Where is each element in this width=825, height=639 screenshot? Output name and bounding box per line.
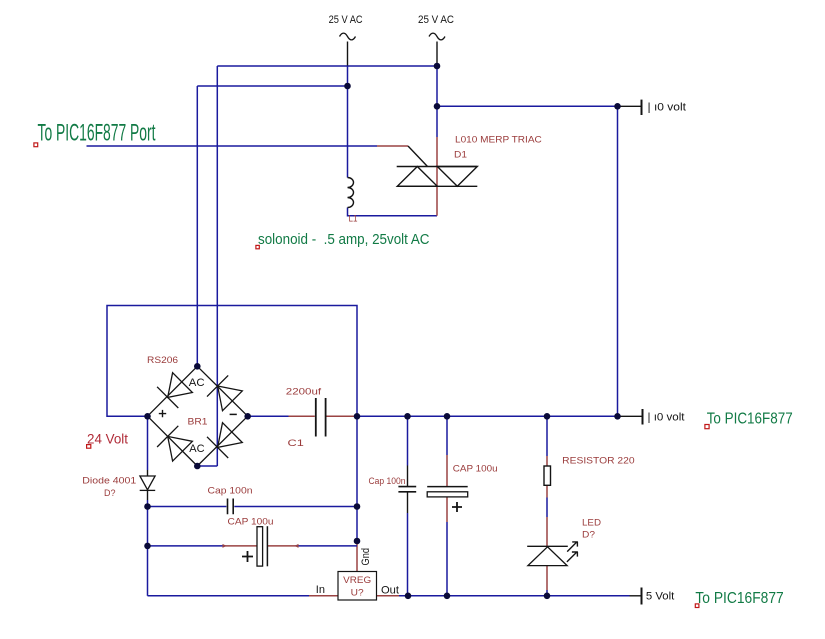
svg-text:24 Volt: 24 Volt	[87, 431, 128, 446]
inductor L1 coil	[348, 178, 354, 208]
triac D1 top line	[397, 166, 478, 168]
LED D? arrow 1	[567, 542, 578, 552]
svg-text:VREG: VREG	[343, 575, 371, 586]
wire top AC line	[217, 65, 437, 67]
capacitor CAP100u vertical plus sign	[452, 502, 462, 512]
wire cap100u line right	[296, 545, 358, 547]
triac D1 gate diagonal	[408, 146, 428, 167]
wire to 0 volt top	[437, 105, 618, 107]
capacitor C1 2200uf plates	[316, 398, 326, 437]
bridge BR1 arm top-left	[148, 366, 198, 416]
svg-text:RS206: RS206	[147, 355, 178, 366]
svg-text:| ı0 volt: | ı0 volt	[648, 412, 685, 424]
terminal 25VAC1 stub	[347, 42, 349, 66]
wire right vertical	[617, 106, 619, 416]
LED D? triangle	[528, 547, 567, 566]
terminal 25VAC2 tilde	[429, 33, 445, 40]
triac D1 bottom line	[397, 185, 477, 187]
wire In lead maroon	[309, 595, 338, 597]
diode D? 4001 triangle	[140, 476, 155, 490]
wire Out lead maroon	[377, 595, 400, 597]
voltage regulator U? VREG box	[338, 572, 377, 601]
svg-text:BR1: BR1	[188, 417, 208, 428]
svg-text:To PIC16F877: To PIC16F877	[695, 590, 783, 607]
capacitor CAP100u vertical plate rect	[427, 492, 468, 497]
svg-text:2200uf: 2200uf	[286, 386, 322, 397]
svg-text:Out: Out	[381, 584, 399, 596]
svg-text:D1: D1	[454, 149, 467, 160]
resistor R 220 body	[544, 466, 551, 485]
diode D? 4001 bar	[140, 489, 156, 491]
port squares red	[34, 143, 709, 608]
wire diode lead bottom	[147, 491, 149, 501]
wire solenoid bottom to triac	[348, 208, 438, 216]
svg-text:| ı0 volt: | ı0 volt	[648, 102, 687, 114]
svg-text:To PIC16F877: To PIC16F877	[707, 410, 793, 427]
bridge diode TR triangle	[218, 386, 243, 411]
wire cap100n line right	[234, 506, 357, 508]
wire diode lead top	[147, 470, 149, 476]
svg-text:AC: AC	[189, 443, 204, 455]
capacitor CAP100u horizontal plus sign	[242, 551, 253, 562]
svg-text:Diode 4001: Diode 4001	[82, 476, 136, 487]
bridge diode TL triangle	[168, 373, 193, 398]
LED D? arrow 2	[567, 552, 578, 562]
LED D? bar	[527, 545, 568, 547]
svg-text:L010 MERP TRIAC: L010 MERP TRIAC	[455, 135, 542, 146]
wire cap100u line left	[148, 545, 226, 547]
cap100u tiny arrow marks	[223, 544, 227, 548]
bridge diode BR triangle	[218, 423, 243, 448]
triac D1 gate lead maroon	[377, 145, 408, 147]
svg-text:D?: D?	[582, 529, 595, 540]
bridge diode TL bar	[157, 387, 178, 408]
terminal bar 0volt mid	[642, 409, 644, 425]
svg-text:AC: AC	[189, 377, 205, 389]
bridge BR1 arm top-right	[197, 366, 247, 416]
wire left vertical to bridge top	[196, 86, 198, 366]
svg-text:D?: D?	[104, 488, 116, 499]
wire resistor column blue	[546, 416, 548, 596]
svg-text:To PIC16F877 Port: To PIC16F877 Port	[38, 120, 156, 147]
svg-text:Cap 100n: Cap 100n	[369, 476, 406, 487]
wire plus to diode	[147, 416, 149, 470]
wire 5V terminal stub	[630, 595, 642, 597]
wire cap3 column	[446, 416, 448, 596]
capacitor CAP100u horizontal plate line	[266, 526, 268, 566]
svg-text:Cap 100n: Cap 100n	[208, 486, 253, 497]
wire gnd lead maroon	[356, 543, 358, 572]
wire C1 leads maroon	[289, 415, 358, 417]
triac D1 vertical maroon	[436, 137, 438, 216]
svg-text:CAP 100u: CAP 100u	[453, 463, 498, 474]
svg-text:solonoid - .5 amp, 25volt AC: solonoid - .5 amp, 25volt AC	[258, 231, 430, 248]
label minus sign bridge	[230, 413, 237, 415]
bridge diode BL triangle	[168, 436, 193, 461]
wire resistor leads maroon	[546, 456, 548, 590]
wire second AC line	[197, 85, 347, 87]
capacitor Cap100n vertical plates	[398, 487, 416, 492]
capacitor CAP100u horizontal plate rect	[257, 527, 263, 566]
svg-text:U?: U?	[351, 588, 364, 599]
wire bottom 5V line	[399, 595, 630, 597]
bridge BR1 arm bottom-left	[148, 416, 198, 466]
svg-text:Gnd: Gnd	[360, 548, 372, 566]
capacitor Cap100n horizontal plates	[228, 499, 234, 515]
wire minus rail left	[248, 415, 289, 417]
wire left vertical to bridge bottom	[197, 66, 217, 466]
wire 25VAC to solenoid	[347, 66, 349, 178]
wire cap3 leads maroon	[446, 455, 448, 522]
svg-text:RESISTOR 220: RESISTOR 220	[562, 455, 634, 466]
wire cap2 column	[407, 416, 409, 596]
wire cap100u lead right maroon	[268, 545, 296, 547]
terminal bar 0volt top	[641, 100, 643, 115]
bridge diode TR bar	[207, 375, 228, 396]
label plus sign bridge	[159, 410, 166, 417]
triac D1 right triangle	[437, 167, 477, 187]
wire bottom to VREG In	[148, 595, 310, 597]
bridge diode BL bar	[157, 426, 178, 447]
terminal 25VAC1 tilde	[340, 33, 356, 40]
wire 25VAC2 down	[436, 66, 438, 137]
svg-text:CAP 100u: CAP 100u	[228, 516, 274, 527]
bridge diode BR bar	[207, 437, 228, 458]
triac D1 left triangle	[397, 167, 437, 187]
wire cap100n line left	[148, 506, 227, 508]
svg-text:25 V AC: 25 V AC	[329, 14, 363, 26]
bridge BR1 arm bottom-right	[197, 416, 247, 466]
wire main rail	[357, 415, 618, 417]
svg-text:In: In	[316, 584, 325, 596]
wire plus loop box	[107, 306, 357, 543]
svg-text:5 Volt: 5 Volt	[646, 590, 674, 602]
svg-text:L1: L1	[349, 214, 358, 225]
capacitor CAP100u vertical plate line	[427, 486, 468, 488]
wire 0volt top stub	[618, 105, 642, 107]
svg-text:C1: C1	[288, 438, 304, 449]
wire left column down	[147, 500, 149, 596]
svg-text:25 V AC: 25 V AC	[418, 14, 454, 26]
svg-text:LED: LED	[582, 517, 601, 528]
wire 0volt mid stub	[618, 415, 643, 417]
terminal bar 5volt	[641, 588, 643, 605]
terminal 25VAC2 stub	[436, 42, 438, 66]
wire cap2 leads	[407, 466, 409, 514]
wire PIC port gate line	[87, 145, 378, 147]
wire cap100u lead left maroon	[226, 545, 257, 547]
